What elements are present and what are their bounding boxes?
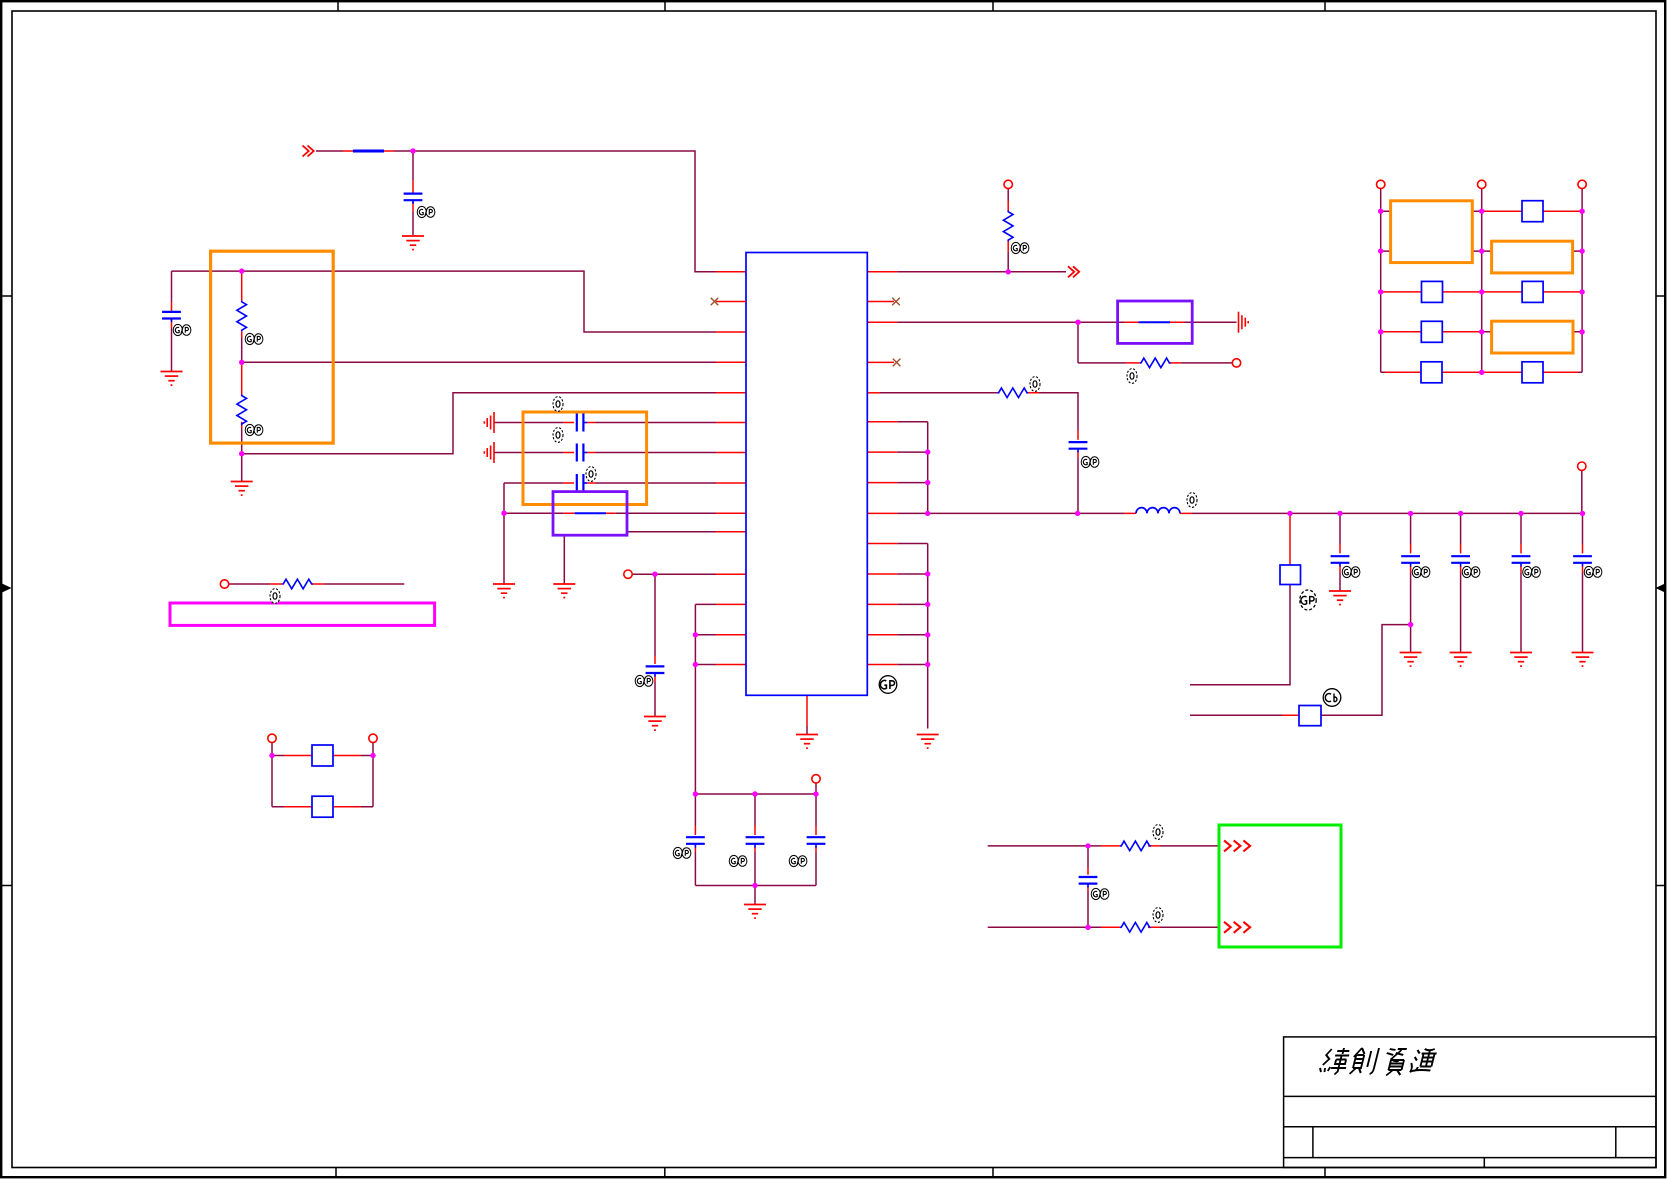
jumper pair red stubs xyxy=(284,756,361,807)
chassis symbol C xyxy=(1239,312,1249,333)
tick left 1 xyxy=(1,295,12,297)
ground below C14 xyxy=(1510,653,1532,667)
inductor L1 xyxy=(1136,508,1180,514)
test point stub to cluster rail xyxy=(815,783,817,794)
ref label C7 xyxy=(673,847,691,858)
capacitor C13 xyxy=(1451,556,1470,566)
network terminal circle middle xyxy=(1478,180,1486,188)
ground below divider xyxy=(231,482,253,496)
junction dot cluster rail c xyxy=(813,791,818,796)
jumper block J4 bottom xyxy=(312,796,333,817)
value label C4 xyxy=(553,428,563,443)
wire R1 to mid junction xyxy=(241,338,243,362)
junction dot divider mid xyxy=(239,360,244,365)
ferrite bead FB2 element line xyxy=(1139,321,1171,323)
junction dot VIN xyxy=(410,148,415,153)
緯 xyxy=(1318,1048,1351,1075)
wire chassis A to capacitor C3 xyxy=(494,422,716,424)
title block row line 3 xyxy=(1284,1157,1656,1159)
pin stub IC pin 24 right xyxy=(867,392,880,394)
ref label C13 xyxy=(1462,566,1480,577)
capacitor C2 xyxy=(162,312,181,322)
junction dot FB1 net xyxy=(501,511,506,516)
junction dot R3 net xyxy=(1006,269,1011,274)
capacitor C6 xyxy=(646,666,665,676)
ref label C10 xyxy=(1081,456,1099,467)
wire junction down to capacitor C6 xyxy=(654,574,656,656)
IC bottom pin stub xyxy=(806,695,808,726)
wire Cb left stub row B xyxy=(1190,714,1282,716)
pin stub IC pin 28 right and wire to output connector xyxy=(867,271,897,273)
wire test point to IC pin 11 xyxy=(632,573,716,575)
tick right 1 xyxy=(1656,295,1665,297)
red stubs around R4 xyxy=(1126,362,1181,364)
net label text block blue on VIN xyxy=(353,150,384,153)
title block cell divider a xyxy=(1312,1127,1314,1158)
wire purple module to IC pin 10 xyxy=(627,531,716,533)
pin stubs IC pins 19-15 right xyxy=(867,544,897,665)
jumper pair terminal right xyxy=(369,734,377,742)
part label GP near IC xyxy=(879,676,897,694)
junction dot rail J2 xyxy=(1287,511,1292,516)
capacitor C16 xyxy=(1079,877,1098,887)
ground below C12 xyxy=(1400,653,1422,667)
green connector box xyxy=(1219,825,1341,947)
value label C5 xyxy=(586,467,596,482)
chassis symbol B xyxy=(484,442,494,463)
network row 2 wires xyxy=(1381,250,1582,252)
wire IC pin 28 to output chevron xyxy=(897,271,1066,273)
junction dot bus2 a xyxy=(925,571,930,576)
resistor R1 xyxy=(237,301,247,332)
top-right network right rail xyxy=(1581,189,1583,373)
test point circle R4 xyxy=(1232,359,1240,367)
red stubs around C6 xyxy=(654,656,656,682)
highlight box resistor divider xyxy=(211,251,334,443)
tick top 4 xyxy=(1324,1,1326,11)
wire C6 to ground xyxy=(654,682,656,716)
value label R5 xyxy=(1030,377,1040,392)
pin stub IC pin 26 right xyxy=(867,321,897,323)
sense resistor terminal circle xyxy=(220,580,228,588)
purple module bottom stub to ground xyxy=(563,535,565,584)
value label L1 xyxy=(1187,493,1197,508)
red stubs around C3 and IC pin 6 xyxy=(564,422,746,424)
ground below C13 xyxy=(1450,653,1472,667)
title block cell divider b xyxy=(1615,1127,1617,1158)
resistor R2 xyxy=(237,394,247,425)
capacitor C11 xyxy=(1331,556,1350,566)
chevron triple N xyxy=(1224,922,1250,933)
wire IC bottom pin to ground xyxy=(806,726,808,734)
pin stubs IC pins 23-20 right xyxy=(867,422,897,514)
junction dot cluster rail b xyxy=(752,791,757,796)
red stubs around C5 and IC pin 8 xyxy=(564,482,746,484)
title block row line 2 xyxy=(1284,1126,1656,1128)
junction dot bus1 b xyxy=(925,480,930,485)
network jumper row5 left xyxy=(1421,362,1442,383)
differential pair wire P xyxy=(988,845,1219,847)
red stubs around rail inductor L1 xyxy=(1124,512,1192,514)
title block row line 1 xyxy=(1284,1095,1656,1097)
ground below riser xyxy=(493,584,515,598)
resistor R7 xyxy=(1120,923,1151,933)
red stubs around C4 and IC pin 7 xyxy=(564,452,746,454)
junction dot bus1 a xyxy=(925,449,930,454)
company logo text 緯創資通 xyxy=(1318,1048,1438,1076)
branch rail to capacitor C11 xyxy=(1339,513,1341,544)
red stubs around R7 xyxy=(1101,926,1160,928)
branch rail to jumper block J2 xyxy=(1289,513,1291,565)
network dots middle rail xyxy=(1479,209,1484,214)
wire J2 to stub row A xyxy=(1190,585,1290,685)
ground below bus2 xyxy=(917,735,939,749)
capacitor C15 xyxy=(1573,556,1592,566)
wire C12 to ground with tap xyxy=(1410,573,1412,652)
no-connect X IC pin 25 right xyxy=(893,359,901,367)
network jumper row4 left xyxy=(1421,321,1442,342)
junction dot divider bottom xyxy=(239,451,244,456)
pin stub IC pin 10 left xyxy=(716,531,746,533)
junction dot bus2 b xyxy=(925,602,930,607)
TITLEBLOCK xyxy=(1284,1037,1656,1168)
purple module box FB2 xyxy=(1118,301,1193,343)
junction dot bus1 c xyxy=(925,511,930,516)
pin stub IC pin 2 left NC xyxy=(716,301,746,303)
ref label C9 xyxy=(789,855,807,866)
network jumper row3 right xyxy=(1522,281,1543,302)
network row 5 corners xyxy=(1381,371,1582,373)
tick top 1 xyxy=(337,1,339,11)
wire divider bottom tap to IC pin 5 xyxy=(242,393,716,454)
ref label C6 xyxy=(635,675,653,686)
resistor R6 xyxy=(1120,841,1151,851)
decoupling cluster bottom rail xyxy=(695,885,816,887)
red stubs around R6 xyxy=(1101,845,1160,847)
right bus2 pins 19-15 to ground xyxy=(897,544,927,729)
capacitor C1 xyxy=(404,194,423,204)
sense jumper block Cb xyxy=(1299,706,1321,726)
junction dot FB2 net xyxy=(1075,320,1080,325)
value label C3 xyxy=(553,397,563,412)
capacitor C8 riser xyxy=(754,794,756,886)
chevron triple P xyxy=(1224,840,1250,851)
value label R8 xyxy=(270,589,280,604)
red stub below R1 xyxy=(241,332,243,339)
branch rail to capacitor C12 xyxy=(1410,513,1412,544)
junction dot rail C15 xyxy=(1580,511,1585,516)
network row 1 right red xyxy=(1482,210,1582,212)
ground below cluster xyxy=(744,905,766,919)
network row 4 wires xyxy=(1381,331,1482,333)
wire C13 to ground xyxy=(1460,573,1462,652)
branch rail to capacitor C15 xyxy=(1582,513,1584,544)
red stubs around C8 xyxy=(754,826,756,852)
ref label C8 xyxy=(729,855,747,866)
jumper block J2 xyxy=(1280,565,1301,585)
ref label C16 xyxy=(1091,888,1109,899)
red stub above R2 xyxy=(241,365,243,394)
junction dot rail C10 xyxy=(1075,511,1080,516)
junction dot bus2 c xyxy=(925,632,930,637)
decoupling cluster top rail xyxy=(695,793,816,795)
pin stubs IC pins 12-14 left xyxy=(716,604,746,664)
divider chain red stub above R1 xyxy=(241,271,243,301)
jumper block J3 top xyxy=(312,745,333,766)
wire chassis B to capacitor C4 xyxy=(494,452,716,454)
resistor R8 xyxy=(282,579,313,589)
wire pull-up resistor R3 branch xyxy=(1007,189,1009,272)
tick bottom 4 xyxy=(1324,1168,1326,1178)
ground below C6 xyxy=(644,717,666,731)
title block outline xyxy=(1284,1037,1656,1168)
wire through resistor R4 to test point xyxy=(1078,362,1232,364)
network row 1 wires xyxy=(1381,210,1482,212)
ferrite bead FB1 element line xyxy=(575,512,606,514)
capacitor C12 xyxy=(1401,556,1420,566)
wire from VIN junction down to capacitor C1 xyxy=(412,151,414,180)
capacitor C5 xyxy=(577,474,587,492)
junction dot C6 branch xyxy=(652,572,657,577)
pull-up resistor R3 xyxy=(1003,211,1013,242)
capacitor C10 xyxy=(1069,442,1088,452)
right bus1 pins 23-20 xyxy=(897,422,927,514)
network terminal circle right xyxy=(1578,180,1586,188)
capacitor C9 xyxy=(807,837,826,847)
wire ground riser to capacitor C5 and IC pin 8 xyxy=(504,483,716,584)
pin stub IC pin 1 left xyxy=(716,271,746,273)
junction dot cluster rail a xyxy=(693,791,698,796)
network orange box C xyxy=(1492,321,1573,353)
red stubs around FB1 and IC pin 9 xyxy=(564,512,746,514)
red stubs around R8 xyxy=(270,583,324,585)
wire R2 to bottom junction and ground xyxy=(241,428,243,481)
capacitor C9 riser xyxy=(815,794,817,886)
no-connect X IC pin 27 right xyxy=(892,298,900,306)
purple module box FB1 xyxy=(553,492,627,536)
pin stub IC pin 5 left xyxy=(716,392,746,394)
cluster ground stub xyxy=(754,886,756,905)
junction dot diff N xyxy=(1085,925,1090,930)
junction dot C12 tap xyxy=(1408,622,1413,627)
value label R4 xyxy=(1127,369,1137,384)
ground below C2 xyxy=(161,372,183,386)
current sense resistor net wire xyxy=(229,583,404,585)
pin stub IC pin 25 right NC xyxy=(867,361,894,363)
pin stub IC pin 4 left xyxy=(716,361,746,363)
junction dot left bus a xyxy=(693,632,698,637)
output chevron connector xyxy=(1068,266,1079,277)
part label Cb xyxy=(1323,689,1341,707)
capacitor C4 xyxy=(577,444,587,462)
IC U1 body xyxy=(746,253,867,696)
red stubs around FB2 xyxy=(1124,321,1184,323)
network dots left rail xyxy=(1378,209,1383,214)
red stubs around C9 xyxy=(815,826,817,852)
centering arrow left xyxy=(2,584,12,593)
ground below C11 xyxy=(1329,591,1351,605)
ground below purple module xyxy=(553,584,575,598)
ref label R2 xyxy=(245,424,263,435)
jumper pair top wire xyxy=(272,743,373,807)
ref label R1 xyxy=(245,333,263,344)
red stub above C1 xyxy=(412,180,414,211)
tick left 2 xyxy=(1,885,12,887)
junction dot rail C11 xyxy=(1337,511,1342,516)
ref label C11 xyxy=(1342,566,1360,577)
wire left branch down to capacitor C2 xyxy=(171,271,173,302)
network jumper row3 left xyxy=(1422,281,1443,302)
junction dot jumper right xyxy=(370,753,375,758)
value label R6 xyxy=(1153,825,1163,840)
network row 4 maroon xyxy=(1482,331,1582,333)
ref label C12 xyxy=(1412,566,1430,577)
junction dot rail C12 xyxy=(1408,511,1413,516)
capacitor C7 xyxy=(686,837,705,847)
ref label C14 xyxy=(1523,566,1541,577)
input chevron connector xyxy=(303,146,314,157)
branch rail to capacitor C14 xyxy=(1520,513,1522,544)
wire C14 to ground xyxy=(1520,573,1522,652)
value label R7 xyxy=(1153,908,1163,923)
wire IC pin 24 through resistor R5 to cap C10 xyxy=(880,393,1078,514)
capacitor C8 xyxy=(746,837,765,847)
ground below IC bottom pin xyxy=(796,735,818,749)
ground below C15 xyxy=(1572,653,1594,667)
wire C2 to ground xyxy=(171,328,173,371)
junction dot bus2 d xyxy=(925,662,930,667)
tick bottom 2 xyxy=(664,1168,666,1178)
no-connect X IC pin 2 left xyxy=(711,298,719,306)
wire C11 to ground xyxy=(1339,573,1341,591)
wire divider top rail to IC pin 3 xyxy=(172,271,717,332)
top-right network left rail xyxy=(1380,189,1382,373)
resistor R5 xyxy=(997,388,1028,398)
test point circle cluster xyxy=(812,775,820,783)
shunt capacitor C16 riser xyxy=(1087,846,1089,927)
network row 3 red wires xyxy=(1381,291,1582,293)
red stubs around C2 xyxy=(171,302,173,328)
net name segment red on VIN xyxy=(343,150,394,152)
tick top 2 xyxy=(664,1,666,11)
network jumper row1 right xyxy=(1522,201,1543,222)
centering arrow right xyxy=(1656,584,1666,593)
branch rail to capacitor C13 xyxy=(1460,513,1462,544)
chassis symbol A xyxy=(484,412,494,433)
junction dot rail C13 xyxy=(1458,511,1463,516)
left pin bus wire IC pins 12-14 xyxy=(695,604,716,794)
red stubs around R5 and C10 xyxy=(1026,393,1078,458)
test point circle R3 top xyxy=(1004,180,1012,188)
wire through ferrite bead FB1 to IC pin 9 xyxy=(504,512,716,514)
title block cell divider c xyxy=(1483,1158,1485,1168)
junction dot jumper left xyxy=(269,753,274,758)
tick bottom 1 xyxy=(335,1168,337,1178)
wire divider mid tap to IC pin 4 xyxy=(242,361,716,363)
magenta highlight box xyxy=(170,603,435,625)
resistor R4 xyxy=(1140,358,1171,368)
wire C1 to ground xyxy=(412,212,414,235)
wire C15 to ground xyxy=(1582,573,1584,652)
pin stub IC pin 3 left xyxy=(716,331,746,333)
differential pair wire N xyxy=(988,926,1219,928)
capacitor C14 xyxy=(1512,556,1531,566)
main output rail VOUT xyxy=(928,512,1583,514)
pin stub IC pin 27 right NC xyxy=(867,301,894,303)
junction dot cluster bottom xyxy=(752,883,757,888)
test point circle rail xyxy=(1578,462,1586,470)
capacitor C3 xyxy=(577,414,587,432)
network row 5 wires xyxy=(1385,371,1578,373)
tick right 2 xyxy=(1656,885,1665,887)
capacitor C7 riser xyxy=(694,794,696,886)
junction dot diff P xyxy=(1085,843,1090,848)
pin stub IC pin 11 left xyxy=(716,573,746,575)
jumper pair terminal left xyxy=(268,734,276,742)
rail test point stub xyxy=(1581,471,1583,514)
branch from FB2 net down to R4 row xyxy=(1077,322,1079,363)
ground below C1 xyxy=(402,236,424,250)
network jumper row5 right xyxy=(1522,362,1543,383)
ref label R3 xyxy=(1011,242,1029,253)
red stubs around C7 xyxy=(694,826,696,852)
wire IC pin 26 to ferrite bead FB2 xyxy=(897,321,1236,323)
ref label C15 xyxy=(1584,566,1602,577)
tick top 3 xyxy=(992,1,994,11)
red stub at Cb left xyxy=(1282,714,1299,716)
junction dot divider top xyxy=(239,268,244,273)
part label GP near J2 xyxy=(1300,590,1316,610)
tap wire to sense jumper Cb xyxy=(1321,625,1411,716)
network orange box A xyxy=(1391,201,1473,263)
red stubs around C16 xyxy=(1087,868,1089,891)
ref label C1 xyxy=(417,206,435,217)
network orange box B xyxy=(1492,241,1573,273)
ref label C2 xyxy=(173,324,191,335)
highlight box cap trio xyxy=(523,412,647,505)
red stubs around R3 xyxy=(1007,201,1009,252)
junction dot left bus b xyxy=(693,662,698,667)
junction dot rail C14 xyxy=(1518,511,1523,516)
red stub below R2 xyxy=(241,422,243,428)
test point circle IC pin 11 xyxy=(624,570,632,578)
network dots right rail xyxy=(1579,209,1584,214)
top-right network middle rail xyxy=(1481,189,1483,373)
network terminal circle left xyxy=(1377,180,1385,188)
wire net VIN from input connector to IC pin 1 xyxy=(316,151,716,272)
tick bottom 3 xyxy=(992,1168,994,1178)
